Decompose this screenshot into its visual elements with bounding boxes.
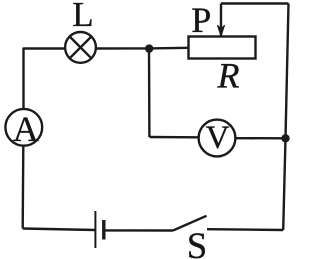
node junction (lamp / rheostat / voltmeter tap)	[145, 44, 153, 52]
svg-text:V: V	[206, 120, 230, 156]
svg-text:R: R	[217, 56, 240, 96]
svg-text:P: P	[191, 0, 211, 40]
battery short plate	[102, 220, 105, 240]
wire voltmeter branch horizontal left	[149, 136, 197, 139]
wire right vertical (top corner to V node to bottom corner)	[283, 4, 288, 231]
wire voltmeter to right node	[235, 137, 285, 140]
battery long plate	[94, 211, 96, 248]
svg-text:A: A	[13, 109, 39, 149]
wire ammeter down to bottom-left corner	[22, 146, 25, 229]
wire switch to bottom-right corner	[207, 228, 283, 231]
wire battery to switch	[104, 229, 173, 232]
wire lamp to node	[96, 47, 149, 49]
switch S lever	[173, 216, 207, 231]
wiper arrow head	[217, 25, 224, 36]
wire left vertical (corner down to ammeter)	[22, 48, 24, 109]
ammeter A	[5, 109, 42, 146]
voltmeter V	[199, 120, 236, 157]
svg-text:S: S	[187, 225, 207, 259]
lamp L	[65, 32, 96, 63]
wire top-left horizontal (corner to lamp)	[24, 47, 65, 49]
wire bottom (corner to battery)	[23, 229, 96, 231]
wire wiper to top-right corner	[221, 2, 289, 4]
wire node to rheostat left terminal	[149, 47, 188, 50]
svg-text:L: L	[72, 0, 93, 34]
wire node down to voltmeter branch	[148, 48, 151, 137]
rheostat R body	[189, 37, 256, 59]
wiper arrow shaft P	[220, 4, 222, 37]
node junction (voltmeter right / main loop)	[281, 134, 289, 142]
